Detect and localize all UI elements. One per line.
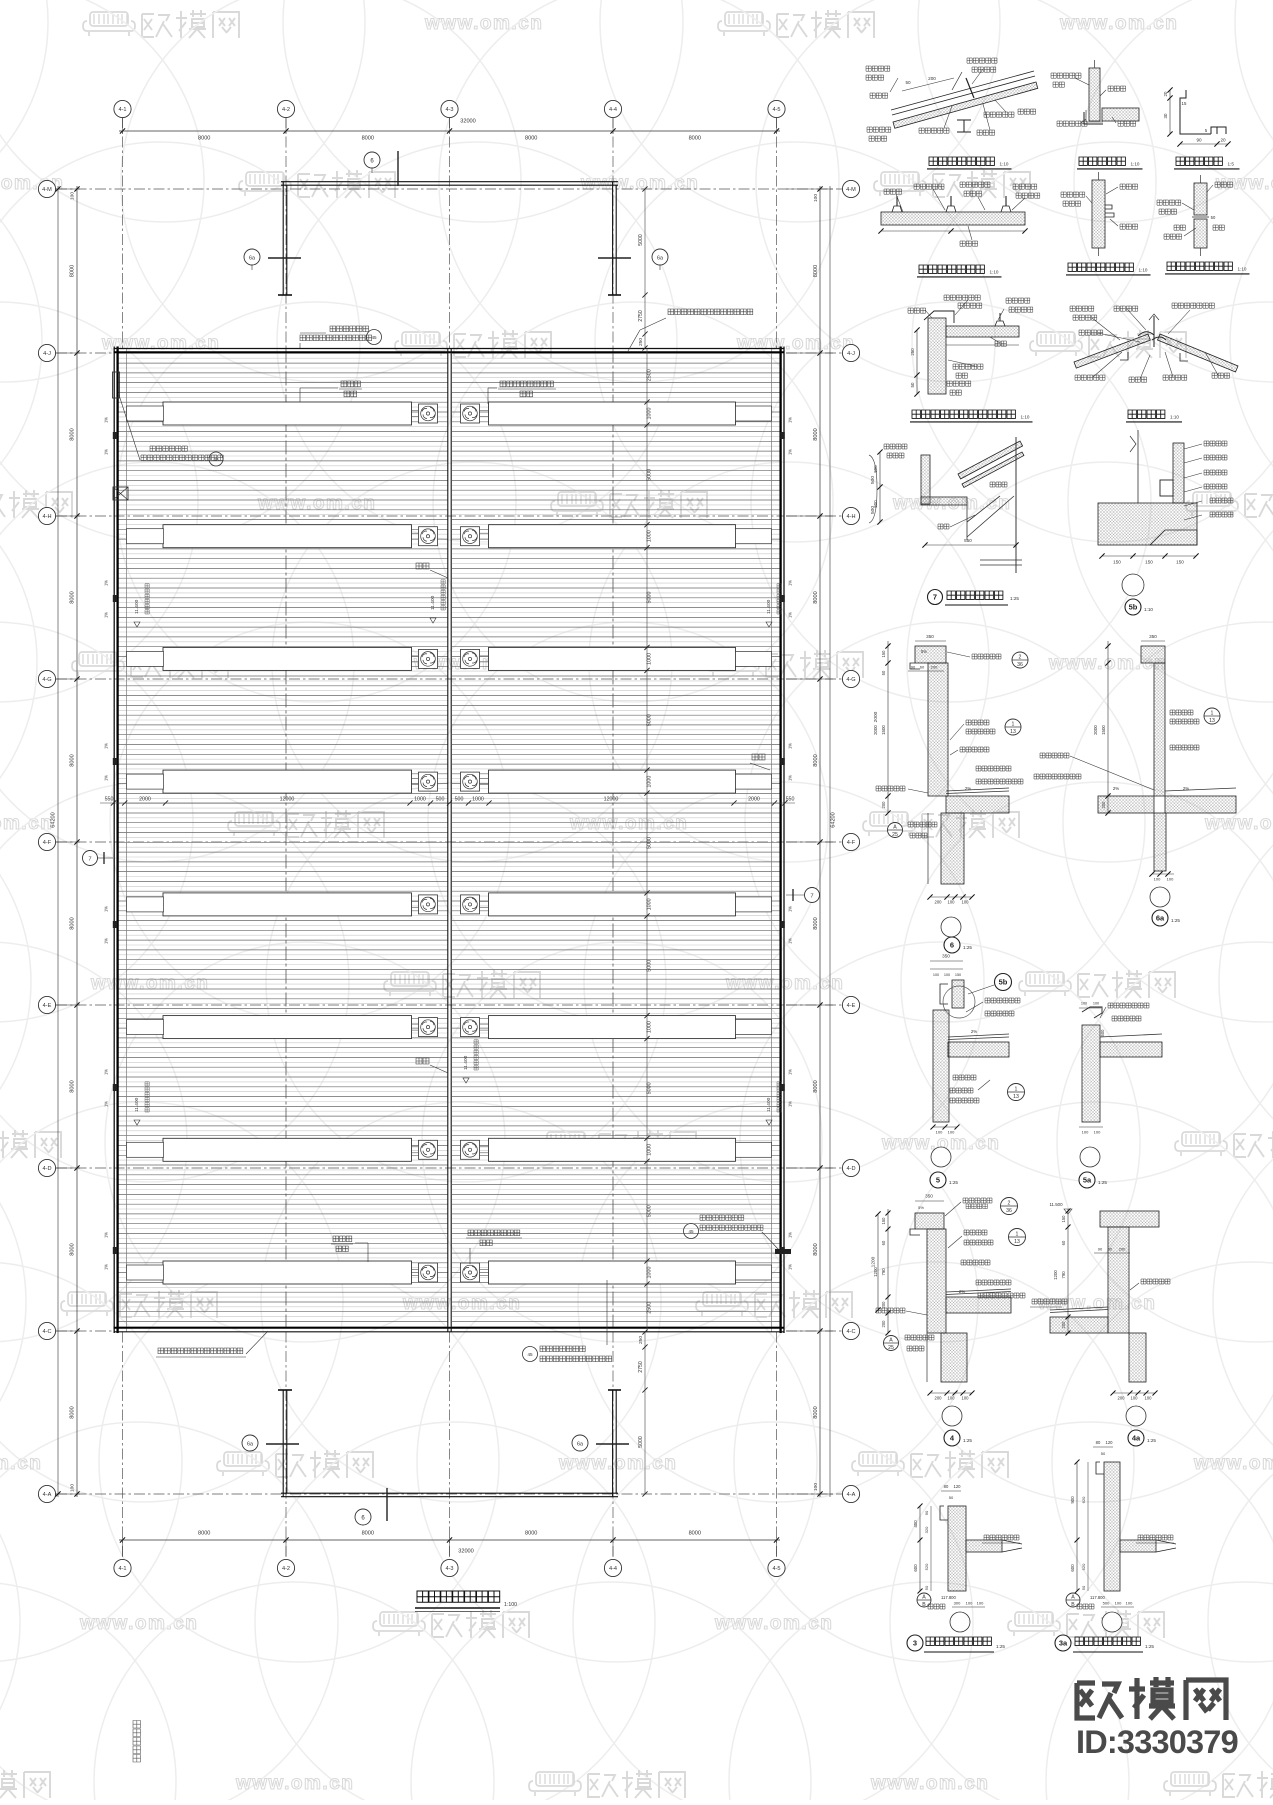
watermark sofa logo (1032,328)	[1037, 332, 1075, 346]
svg-text:11.400: 11.400	[134, 1097, 140, 1112]
svg-text:520: 520	[924, 1563, 929, 1570]
svg-text:120: 120	[954, 1484, 962, 1489]
svg-text:25: 25	[888, 1345, 894, 1351]
svg-text:25: 25	[892, 832, 898, 838]
title 外墙板纵向连接	[1068, 263, 1133, 271]
svg-text:8000: 8000	[813, 754, 819, 766]
svg-text:1:25: 1:25	[1171, 918, 1180, 923]
svg-text:2000: 2000	[873, 711, 879, 722]
svg-text:5: 5	[936, 1176, 940, 1185]
watermark sofa logo (85,8)	[90, 12, 128, 26]
svg-text:7: 7	[810, 894, 813, 900]
svg-text:ID:3330379: ID:3330379	[1076, 1724, 1238, 1760]
svg-text:1000: 1000	[472, 797, 484, 803]
note top right roof	[668, 309, 753, 315]
svg-text:100: 100	[1154, 877, 1161, 882]
skylight band row 2 right	[489, 525, 736, 548]
title 外天沟大样图 (7)	[928, 590, 943, 605]
skylight band row 3 right	[489, 647, 736, 670]
svg-text:20: 20	[1163, 91, 1168, 96]
svg-text:1%: 1%	[788, 906, 793, 912]
note skylight band label lower	[333, 1236, 352, 1242]
skylight band row 6 right	[489, 1016, 736, 1039]
svg-text:7: 7	[88, 857, 91, 863]
detail: roof panel cross-slope connection 屋面板横披连接	[881, 212, 1025, 225]
svg-text:2%: 2%	[1183, 786, 1189, 791]
svg-text:50: 50	[1108, 1247, 1113, 1252]
watermark sofa logo (876,168)	[881, 172, 919, 186]
svg-text:13: 13	[1209, 718, 1215, 724]
svg-text:4-C: 4-C	[846, 1329, 855, 1335]
svg-text:4-4: 4-4	[609, 1566, 617, 1572]
svg-text:2750: 2750	[638, 310, 644, 322]
svg-text:350: 350	[926, 634, 934, 639]
svg-text:1:100: 1:100	[504, 1602, 517, 1608]
svg-text:45: 45	[213, 457, 219, 462]
svg-text:4-G: 4-G	[42, 677, 51, 683]
svg-text:1000: 1000	[414, 797, 426, 803]
svg-text:1%: 1%	[104, 1232, 109, 1238]
downspout marker left	[113, 487, 128, 500]
svg-text:6a: 6a	[247, 1441, 253, 1447]
svg-text:6a: 6a	[657, 255, 663, 261]
note skylight band label top	[341, 381, 360, 387]
svg-text:1000: 1000	[647, 408, 653, 420]
detail: eave section 5a	[1079, 1007, 1101, 1009]
svg-text:20: 20	[1220, 138, 1226, 143]
svg-text:550: 550	[105, 797, 114, 803]
svg-text:5%: 5%	[918, 1205, 924, 1210]
svg-text:1:10: 1:10	[1021, 414, 1030, 419]
watermark sofa logo (854,1448)	[859, 1452, 897, 1466]
svg-text:1%: 1%	[788, 1101, 793, 1107]
skylight band row 1 left	[163, 402, 412, 425]
watermark sofa logo (1021,968)	[1026, 972, 1064, 986]
left axis circles	[38, 180, 55, 197]
note fan label lower	[468, 1230, 520, 1236]
svg-text:5000: 5000	[638, 1436, 644, 1448]
svg-text:1000: 1000	[647, 530, 653, 542]
svg-text:3a: 3a	[1059, 1639, 1068, 1648]
svg-text:50: 50	[1101, 1451, 1106, 1456]
svg-text:11.400: 11.400	[766, 1097, 772, 1112]
svg-text:5b: 5b	[999, 978, 1008, 987]
side stamp text	[133, 1721, 141, 1763]
svg-text:3: 3	[913, 1639, 917, 1648]
svg-text:4-H: 4-H	[846, 514, 855, 520]
svg-text:A: A	[889, 1338, 893, 1344]
svg-text:8000: 8000	[70, 1406, 76, 1418]
fan symbols row 5	[419, 895, 438, 914]
watermark sofa logo (553,488)	[558, 492, 596, 506]
svg-text:4-3: 4-3	[445, 107, 453, 113]
svg-text:100: 100	[948, 1130, 955, 1135]
detail: eave section 5	[930, 960, 963, 962]
svg-text:500: 500	[870, 476, 876, 484]
svg-text:5000: 5000	[647, 960, 653, 972]
fan symbols row 4	[419, 772, 438, 791]
svg-text:100: 100	[1094, 1130, 1101, 1135]
svg-text:1%: 1%	[788, 775, 793, 781]
svg-text:80: 80	[1096, 1440, 1101, 1445]
svg-text:2000: 2000	[1093, 725, 1098, 735]
svg-text:8000: 8000	[70, 265, 76, 277]
svg-text:1:10: 1:10	[1139, 267, 1148, 272]
canopy axis row lines	[56, 188, 851, 190]
svg-text:5%: 5%	[921, 649, 927, 654]
section marks 6a top	[244, 249, 260, 265]
detail: wall base 5b	[1173, 443, 1184, 503]
svg-text:100: 100	[813, 194, 819, 202]
watermark sofa logo (1166,1768)	[1171, 1772, 1209, 1786]
svg-text:1500: 1500	[1101, 725, 1106, 735]
svg-text:1:25: 1:25	[1098, 1180, 1107, 1185]
svg-text:B: B	[1071, 1602, 1075, 1608]
svg-text:1:10: 1:10	[990, 269, 999, 274]
svg-text:200: 200	[1118, 1396, 1126, 1401]
svg-text:45: 45	[688, 1229, 694, 1234]
svg-text:1%: 1%	[104, 1101, 109, 1107]
title 雨棚翻边大样图 (3)	[907, 1635, 923, 1651]
svg-text:600: 600	[913, 1564, 918, 1572]
svg-text:1%: 1%	[788, 938, 793, 944]
svg-text:8000: 8000	[70, 591, 76, 603]
svg-text:12000: 12000	[280, 797, 295, 803]
svg-text:1: 1	[1211, 711, 1214, 717]
svg-text:100: 100	[813, 1483, 819, 1491]
svg-text:80: 80	[944, 1484, 949, 1489]
svg-text:100: 100	[70, 1484, 76, 1492]
watermark sofa logo (230,808)	[235, 812, 273, 826]
svg-text:60: 60	[920, 665, 925, 670]
detail: outer wall panel corner 外墙板转角	[1089, 68, 1100, 121]
watermark sofa logo (219,1448)	[224, 1452, 262, 1466]
roof purlin lines right half	[452, 353, 781, 1321]
watermark sofa logo (720,8)	[725, 12, 763, 26]
note fan label top	[500, 381, 553, 387]
svg-text:1:25: 1:25	[963, 1438, 972, 1443]
watermark sofa logo (1010,1608)	[1015, 1612, 1053, 1626]
fan symbols row 3	[419, 649, 438, 668]
svg-text:8000: 8000	[813, 1243, 819, 1255]
svg-text:1:10: 1:10	[1170, 414, 1179, 419]
svg-text:1%: 1%	[104, 449, 109, 455]
svg-text:50: 50	[881, 670, 886, 675]
svg-text:8000: 8000	[362, 136, 374, 142]
svg-text:2%: 2%	[971, 1029, 977, 1034]
svg-text:4-1: 4-1	[118, 1566, 126, 1572]
svg-text:100: 100	[948, 900, 956, 905]
svg-text:50: 50	[1081, 1585, 1086, 1590]
svg-text:790: 790	[881, 1268, 886, 1276]
skylight band row 8 right	[489, 1261, 736, 1284]
svg-text:2%: 2%	[1113, 786, 1119, 791]
note roof leader top center	[330, 326, 369, 332]
svg-text:100: 100	[933, 973, 939, 977]
interior axis verticals	[285, 349, 287, 1332]
svg-text:32000: 32000	[460, 119, 476, 125]
svg-text:90: 90	[924, 1510, 929, 1515]
svg-text:250: 250	[638, 1336, 644, 1344]
watermark sofa logo (698,1288)	[703, 1292, 741, 1306]
svg-text:500: 500	[436, 797, 445, 803]
svg-text:250: 250	[910, 348, 915, 356]
skylight band row 4 left	[163, 770, 412, 793]
top axis circles	[114, 100, 131, 117]
label 5a	[1079, 1172, 1095, 1188]
svg-text:2%: 2%	[959, 1289, 965, 1294]
svg-text:100: 100	[948, 1396, 956, 1401]
fan symbols row 2	[419, 527, 438, 546]
svg-text:www.om.cn: www.om.cn	[870, 1773, 989, 1794]
svg-text:5000: 5000	[647, 1082, 653, 1094]
svg-text:8000: 8000	[813, 591, 819, 603]
svg-text:4-5: 4-5	[772, 1566, 780, 1572]
svg-text:B: B	[922, 1602, 926, 1608]
svg-text:8000: 8000	[525, 1531, 537, 1537]
svg-text:100: 100	[944, 973, 950, 977]
svg-text:1000: 1000	[647, 1144, 653, 1156]
svg-text:5000: 5000	[647, 1205, 653, 1217]
svg-text:1%: 1%	[104, 906, 109, 912]
skylight band row 1 right	[489, 402, 736, 425]
svg-text:8000: 8000	[198, 1531, 210, 1537]
svg-text:1:25: 1:25	[996, 1644, 1005, 1649]
svg-text:90: 90	[911, 665, 916, 670]
svg-text:50: 50	[910, 382, 915, 387]
svg-text:2000: 2000	[139, 797, 151, 803]
svg-text:1%: 1%	[104, 612, 109, 618]
svg-text:100: 100	[977, 1601, 984, 1606]
svg-text:150: 150	[881, 1217, 886, 1225]
svg-text:350: 350	[942, 954, 950, 959]
canopy bottom dims	[644, 1332, 646, 1494]
svg-text:6a: 6a	[1156, 914, 1165, 923]
svg-text:4-1: 4-1	[118, 107, 126, 113]
svg-text:4-D: 4-D	[42, 1166, 51, 1172]
svg-text:4-M: 4-M	[42, 187, 52, 193]
section mark 7 right	[805, 888, 820, 903]
label 5	[930, 1172, 946, 1188]
mid horizontal dimension chain	[100, 802, 795, 804]
svg-text:100: 100	[966, 1601, 973, 1606]
svg-text:117.800: 117.800	[941, 1595, 956, 1600]
svg-text:8000: 8000	[813, 1080, 819, 1092]
svg-text:8000: 8000	[689, 1531, 701, 1537]
section mark 7 left	[83, 851, 98, 866]
watermark sofa logo (531,1768)	[536, 1772, 574, 1786]
svg-text:4-D: 4-D	[846, 1166, 855, 1172]
svg-text:60: 60	[1061, 1240, 1066, 1245]
svg-text:150: 150	[1061, 1215, 1066, 1223]
svg-text:50: 50	[905, 80, 911, 85]
svg-text:200: 200	[935, 1396, 943, 1401]
svg-text:1000: 1000	[647, 776, 653, 788]
note bottom left roof	[158, 1348, 243, 1354]
svg-text:1:10: 1:10	[1131, 161, 1140, 166]
ridge label upper	[416, 563, 429, 569]
title 夹芯板屋面山墙封边大样	[912, 410, 1015, 418]
detail: canopy edge upturn 3 雨棚翻边大样图	[941, 1490, 961, 1492]
svg-text:4-2: 4-2	[282, 1566, 290, 1572]
svg-text:36: 36	[1017, 662, 1023, 668]
steel shed roof plan 钢棚屋面平面图	[38, 100, 880, 1762]
svg-text:30: 30	[1163, 113, 1168, 118]
svg-text:5a: 5a	[1083, 1176, 1092, 1185]
label 6	[944, 937, 960, 953]
svg-text:5000: 5000	[647, 714, 653, 726]
svg-text:www.om.cn: www.om.cn	[1193, 1453, 1273, 1474]
label 4a	[1128, 1430, 1144, 1446]
skylight band row 5 right	[489, 893, 736, 916]
title 外墙板纵向拼接	[1167, 262, 1232, 270]
svg-text:4-M: 4-M	[846, 187, 856, 193]
detail: parapet section 6a	[1141, 646, 1165, 663]
bottom axis circles	[114, 1559, 131, 1576]
title 外墙板转角	[1079, 157, 1125, 165]
watermark sofa logo (1188,488)	[1193, 492, 1231, 506]
watermark sofa logo (241,168)	[246, 172, 284, 186]
watermark sofa logo (1177,1128)	[1182, 1132, 1220, 1146]
svg-text:64200: 64200	[51, 812, 57, 828]
interior vertical dimension chain	[646, 349, 648, 1332]
fan symbols row 7	[419, 1140, 438, 1159]
svg-text:1500: 1500	[881, 725, 886, 735]
svg-text:1%: 1%	[104, 775, 109, 781]
label 5b	[1125, 599, 1141, 615]
svg-text:150: 150	[881, 650, 886, 658]
svg-text:200: 200	[928, 76, 936, 81]
svg-text:600: 600	[1070, 1564, 1075, 1572]
svg-text:1000: 1000	[647, 1267, 653, 1279]
svg-text:1:25: 1:25	[963, 945, 972, 950]
svg-text:8000: 8000	[813, 265, 819, 277]
svg-text:200: 200	[881, 801, 886, 809]
svg-text:A: A	[922, 1595, 926, 1601]
svg-text:1%: 1%	[788, 417, 793, 423]
plan outline edges	[113, 347, 115, 1334]
svg-text:1: 1	[1016, 1232, 1019, 1238]
svg-text:13: 13	[1013, 1094, 1019, 1100]
note right mid ladder	[684, 1224, 699, 1239]
eave inner lines	[126, 349, 128, 1332]
canopy outline bottom	[281, 1492, 618, 1494]
svg-text:A: A	[893, 825, 897, 831]
ridge label lower	[416, 1058, 429, 1064]
detail: color steel corner flashing profile 彩钢包角件	[1180, 90, 1226, 134]
watermark sofa logo (709,648)	[714, 652, 752, 666]
svg-text:100: 100	[1115, 1601, 1122, 1606]
svg-text:1: 1	[1015, 1087, 1018, 1093]
svg-text:6a: 6a	[577, 1441, 583, 1447]
vertical grid axis dash lines bottom	[122, 1332, 124, 1561]
label 4	[944, 1430, 960, 1446]
svg-text:4-A: 4-A	[847, 1492, 856, 1498]
svg-text:1000: 1000	[647, 1021, 653, 1033]
svg-text:8000: 8000	[689, 136, 701, 142]
svg-text:8000: 8000	[525, 136, 537, 142]
title 屋面板横披连接	[919, 265, 984, 273]
svg-text:1%: 1%	[104, 938, 109, 944]
svg-text:1%: 1%	[788, 580, 793, 586]
svg-text:4-J: 4-J	[43, 351, 51, 357]
svg-text:550: 550	[964, 538, 972, 543]
svg-text:90: 90	[1196, 138, 1202, 143]
svg-text:1200: 1200	[871, 1256, 877, 1267]
svg-text:620: 620	[1081, 1496, 1086, 1503]
svg-text:100: 100	[1167, 877, 1174, 882]
svg-text:4-F: 4-F	[847, 840, 856, 846]
svg-text:1%: 1%	[104, 580, 109, 586]
svg-text:8000: 8000	[70, 1080, 76, 1092]
svg-text:200: 200	[1101, 801, 1106, 809]
svg-text:1000: 1000	[647, 898, 653, 910]
svg-text:8000: 8000	[362, 1531, 374, 1537]
svg-text:100: 100	[962, 900, 970, 905]
svg-text:4-C: 4-C	[42, 1329, 51, 1335]
svg-text:11.400: 11.400	[430, 595, 436, 610]
ridge line	[447, 349, 449, 1332]
svg-text:4-5: 4-5	[772, 107, 780, 113]
svg-text:11.400: 11.400	[766, 599, 772, 614]
svg-text:100: 100	[1145, 1396, 1153, 1401]
canopy top dims	[644, 189, 646, 348]
svg-text:1:10: 1:10	[1238, 266, 1247, 271]
svg-text:250: 250	[638, 338, 644, 346]
svg-text:120: 120	[1106, 1440, 1114, 1445]
svg-text:1%: 1%	[104, 1069, 109, 1075]
svg-text:5000: 5000	[647, 837, 653, 849]
svg-text:8000: 8000	[198, 136, 210, 142]
skylight band row 5 left	[163, 893, 412, 916]
svg-text:1%: 1%	[788, 1069, 793, 1075]
eave label right	[752, 754, 765, 760]
svg-text:1:25: 1:25	[949, 1180, 958, 1185]
watermark sofa logo (375,1608)	[380, 1612, 418, 1626]
svg-text:100: 100	[1126, 1601, 1133, 1606]
svg-text:8000: 8000	[813, 428, 819, 440]
svg-text:13: 13	[1014, 1239, 1020, 1245]
svg-text:5000: 5000	[647, 469, 653, 481]
svg-text:1%: 1%	[104, 743, 109, 749]
fan symbols row 6	[419, 1018, 438, 1037]
svg-text:1%: 1%	[104, 417, 109, 423]
drawing title 钢棚屋面平面图	[417, 1591, 500, 1602]
svg-text:150: 150	[1145, 560, 1153, 565]
detail: wall panel longitudinal connection 外墙板纵向连接	[1092, 180, 1105, 248]
vertical grid axis dash lines top	[122, 117, 124, 349]
svg-text:1000: 1000	[647, 653, 653, 665]
watermark sofa logo (74,648)	[79, 652, 117, 666]
svg-text:100: 100	[70, 192, 76, 200]
svg-text:www.om.cn: www.om.cn	[235, 1773, 354, 1794]
svg-text:200: 200	[931, 665, 938, 670]
right dimension chains	[819, 186, 821, 1497]
svg-text:8000: 8000	[70, 428, 76, 440]
svg-text:2000: 2000	[873, 725, 878, 735]
svg-text:500: 500	[873, 465, 878, 473]
svg-text:36: 36	[1006, 1208, 1012, 1214]
section mark 6 bottom	[355, 1509, 371, 1525]
svg-text:11.500: 11.500	[1049, 1202, 1063, 1207]
top dimension line	[119, 130, 780, 132]
svg-text:350: 350	[1149, 634, 1157, 639]
svg-text:4-E: 4-E	[43, 1003, 52, 1009]
svg-text:45: 45	[527, 1352, 533, 1357]
skylight band row 8 left	[163, 1261, 412, 1284]
detail: ridge detail 屋脊大样	[1074, 334, 1150, 368]
title 彩钢包角件	[1176, 157, 1222, 165]
